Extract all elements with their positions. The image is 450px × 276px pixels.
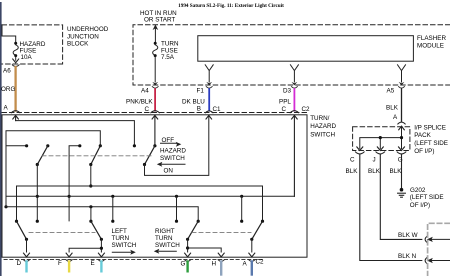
- wire slant3 to B entry: [145, 116, 209, 175]
- wire BLK A5: [401, 89, 403, 121]
- svg-text:TURN: TURN: [112, 235, 130, 242]
- wire PPL D3: [293, 89, 295, 111]
- bus Y: [6, 195, 294, 197]
- HOT IN RUN OR START label: [140, 10, 177, 24]
- svg-text:HAZARD: HAZARD: [160, 148, 186, 155]
- hazard slant 1 top dot: [46, 144, 49, 147]
- svg-text:RIGHT: RIGHT: [155, 228, 175, 235]
- flasher pin Y connector 3: [398, 65, 406, 82]
- pole dot G: [186, 238, 189, 241]
- arrow E exit: [98, 253, 104, 257]
- wire slant1 down to contact row: [36, 165, 38, 222]
- connector cup A: [249, 260, 255, 262]
- right turn switch slant A: [252, 221, 263, 239]
- connector cup F: [66, 260, 72, 262]
- arrow F exit: [66, 253, 72, 257]
- svg-text:JUNCTION: JUNCTION: [67, 34, 99, 41]
- left turn switch label: [112, 228, 137, 249]
- hazard slant 3 bottom dot: [143, 163, 146, 166]
- svg-text:(LEFT SIDE: (LEFT SIDE: [410, 194, 444, 201]
- svg-text:F: F: [58, 260, 62, 267]
- svg-text:TURN/: TURN/: [310, 115, 329, 122]
- arrow D exit: [24, 253, 30, 257]
- bottom connector dashed line C2: [4, 259, 262, 261]
- wire D exit: [26, 239, 28, 252]
- wire from junction block edge to hazard fuse: [2, 25, 16, 42]
- hazard slant 2 bottom dot: [89, 163, 92, 166]
- connector A6 exit cup: [12, 65, 19, 67]
- hazard switch linkage dashed: [42, 155, 151, 157]
- left turn switch slant E: [91, 221, 102, 239]
- labels D3 PPL C C2: [279, 87, 310, 113]
- row A dot 5: [133, 144, 136, 147]
- junction dot bus206 left: [4, 205, 7, 208]
- flasher pin Y connector 2: [290, 65, 298, 82]
- splice junction dot 1: [379, 136, 382, 139]
- entry arrow A (org): [13, 115, 19, 120]
- wire G black down to ground: [401, 155, 403, 188]
- flasher module box U1: [198, 36, 414, 62]
- svg-text:A: A: [393, 114, 398, 121]
- entry arrow A into splice: [399, 126, 405, 130]
- hazard slant 3 top dot: [153, 144, 156, 147]
- hazard slant 1 bottom dot: [36, 163, 39, 166]
- svg-text:BLK: BLK: [386, 105, 399, 112]
- svg-text:OR START: OR START: [144, 17, 175, 24]
- wire stub D lt blu: [25, 262, 27, 272]
- svg-text:SWITCH: SWITCH: [310, 131, 335, 138]
- svg-text:A: A: [4, 105, 9, 112]
- splice exit cup C: [355, 152, 364, 154]
- arrow down at dashed line (F1): [206, 82, 212, 86]
- svg-text:I/P SPLICE: I/P SPLICE: [414, 124, 446, 131]
- svg-text:BLK W: BLK W: [398, 232, 418, 239]
- turn fuse label: [161, 41, 179, 61]
- arrow up to HOT IN RUN: [153, 24, 159, 30]
- svg-text:C: C: [282, 106, 287, 113]
- svg-text:FLASHER: FLASHER: [417, 35, 446, 42]
- wire stub A blue: [251, 262, 253, 275]
- turn/hazard switch label: [310, 115, 336, 138]
- svg-text:PACK: PACK: [414, 132, 431, 139]
- connector cup D: [23, 260, 29, 262]
- svg-text:C2: C2: [302, 106, 311, 113]
- svg-text:F1: F1: [197, 87, 205, 94]
- contact dot 16.5: [15, 220, 18, 223]
- connector cup E: [98, 260, 104, 262]
- wire G exit: [187, 239, 189, 252]
- svg-text:ON: ON: [164, 167, 174, 174]
- splice bus: [360, 127, 402, 149]
- arrow G exit: [185, 253, 191, 257]
- bus from A entry: [16, 121, 135, 145]
- svg-text:G: G: [181, 261, 186, 268]
- contact dot 198.5: [197, 220, 200, 223]
- svg-text:BLK: BLK: [346, 168, 359, 175]
- wire row A contact 3 and F output: [69, 146, 80, 221]
- labels A4 PNK/BLK C: [126, 87, 153, 113]
- splice exit cup J: [376, 152, 385, 154]
- bus 206: [6, 207, 198, 221]
- svg-text:7.5A: 7.5A: [161, 54, 175, 61]
- splice exit cup G: [397, 152, 406, 154]
- labels A5 BLK A: [386, 88, 399, 122]
- inline connector BLK W: [425, 236, 450, 242]
- svg-text:B: B: [197, 106, 201, 113]
- hazard switch slant 3: [145, 146, 155, 165]
- hazard switch label: [160, 148, 186, 163]
- svg-text:10A: 10A: [21, 54, 33, 61]
- wire row A contact 1 to bus206: [6, 146, 27, 207]
- entry arrow C (ppl): [292, 115, 298, 196]
- junction dot busY x37.6: [36, 195, 39, 198]
- svg-text:(LEFT SIDE: (LEFT SIDE: [414, 140, 448, 147]
- bus X right drop: [262, 186, 264, 221]
- row A dot 1: [25, 144, 28, 147]
- wire DK BLU F1: [208, 89, 210, 111]
- arrow down at dashed line (A5): [399, 82, 405, 86]
- svg-text:G202: G202: [410, 187, 426, 194]
- hazard slant 2 top dot: [99, 144, 102, 147]
- left turn switch slant D: [17, 221, 27, 239]
- left turn linkage dashed: [29, 231, 95, 233]
- wire slant2 to busX: [90, 165, 92, 187]
- contact dot 263.3: [261, 220, 264, 223]
- G202 label: [410, 187, 444, 209]
- right turn arrow: [159, 250, 177, 252]
- connector cup G: [184, 260, 190, 262]
- wire J black down and right (BLK W): [380, 155, 422, 239]
- svg-text:BLK: BLK: [390, 168, 403, 175]
- gray dashed rear lamp box corner: [428, 223, 450, 276]
- I/P splice pack dashed box: [353, 127, 410, 151]
- wire stub E lt blu: [100, 262, 102, 272]
- svg-text:SWITCH: SWITCH: [155, 242, 180, 249]
- contact dot 112.8: [111, 220, 114, 223]
- bus X: [17, 186, 263, 221]
- on arrow: [161, 163, 185, 165]
- wire down to turn fuse: [154, 29, 156, 42]
- splice exit arrow J: [377, 147, 383, 151]
- junction dot busY x112.8: [111, 195, 114, 198]
- flasher pin Y connector 1: [205, 65, 213, 82]
- svg-text:PPL: PPL: [279, 98, 291, 105]
- svg-text:PNK/BLK: PNK/BLK: [126, 98, 153, 105]
- contact dot 241.7: [240, 220, 243, 223]
- right turn switch label: [155, 228, 180, 249]
- svg-text:BLK: BLK: [368, 168, 381, 175]
- wire busY to contact 176.5: [176, 196, 178, 221]
- svg-text:D3: D3: [283, 87, 292, 94]
- svg-text:D: D: [17, 260, 22, 267]
- entry arrow B (dk blu): [206, 115, 212, 119]
- wire line3 from left edge to hazard slant2 top: [6, 131, 100, 197]
- connector arc into switch box (C ppl): [290, 111, 299, 113]
- arrow H exit: [218, 253, 224, 257]
- wire bus206 to contact 90.9: [90, 207, 92, 221]
- svg-text:TURN: TURN: [155, 235, 173, 242]
- inline connector BLK N: [425, 258, 450, 264]
- svg-text:J: J: [373, 156, 376, 163]
- turn fuse 7.5A: [153, 42, 158, 82]
- hazard switch slant 2: [91, 146, 101, 165]
- svg-text:A5: A5: [387, 88, 395, 95]
- connector arc into switch box (A): [11, 111, 20, 113]
- contact dot 90.9: [89, 220, 92, 223]
- right turn linkage dashed: [192, 231, 251, 233]
- svg-text:C: C: [350, 156, 355, 163]
- page left border: [0, 2, 2, 276]
- svg-text:DK BLU: DK BLU: [182, 98, 205, 105]
- connector arc into switch box (B): [205, 111, 213, 113]
- splice exit arrow G: [399, 147, 405, 151]
- junction dot busY x176.5: [175, 195, 178, 198]
- connector cup H: [218, 260, 224, 262]
- svg-text:A: A: [243, 261, 248, 268]
- turn/hazard switch box: [2, 115, 307, 257]
- switch box connector dashed line C2: [2, 112, 307, 114]
- wire stub G dk grn: [186, 262, 188, 272]
- wire PNK/BLK A4: [152, 82, 158, 86]
- wire C black down and right (BLK N): [360, 155, 422, 261]
- splice junction dot 2: [400, 136, 403, 139]
- junction dot busY x241.7: [240, 195, 243, 198]
- junction dot busX slant2: [89, 184, 92, 187]
- svg-text:A6: A6: [3, 68, 11, 75]
- arrow A exit: [249, 253, 255, 257]
- arrow down at dashed line (D3): [292, 82, 298, 86]
- connector arc into switch box (C pnk): [151, 111, 160, 113]
- svg-text:OF I/P): OF I/P): [414, 148, 434, 155]
- hazard switch slant 1: [37, 146, 48, 165]
- splice exit arrow C: [357, 147, 363, 151]
- junction dot busY x69.3: [68, 195, 71, 198]
- svg-text:C2: C2: [256, 258, 265, 265]
- I/P splice pack entry arc: [398, 122, 405, 124]
- junction dot bus206 x90.9: [89, 205, 92, 208]
- svg-text:HAZARD: HAZARD: [310, 123, 336, 130]
- contact dot 37.6: [36, 220, 39, 223]
- wire busY to contact 112.8: [112, 196, 114, 221]
- wire A exit: [251, 239, 253, 252]
- off arrow: [161, 142, 177, 144]
- svg-text:OF I/P): OF I/P): [410, 202, 430, 209]
- wire branch to H exit: [188, 248, 222, 252]
- svg-text:E: E: [91, 260, 95, 267]
- wire stub H gray-blue: [220, 262, 222, 275]
- wire E exit: [69, 239, 101, 252]
- svg-text:A4: A4: [141, 87, 149, 94]
- svg-text:LEFT: LEFT: [112, 228, 128, 235]
- ground G202: [398, 188, 406, 197]
- big dashed region (fuse + flasher): [133, 25, 450, 85]
- underhood junction block label: [67, 26, 109, 48]
- svg-text:SWITCH: SWITCH: [112, 242, 137, 249]
- svg-text:C: C: [145, 106, 150, 113]
- pole dot A: [250, 238, 253, 241]
- labels F1 DK BLU B C1: [182, 87, 221, 113]
- pole dot E: [100, 238, 103, 241]
- left turn arrow: [112, 251, 131, 253]
- junction dot G-H branch: [186, 246, 189, 249]
- wire stub F yellow: [68, 262, 70, 272]
- svg-text:MODULE: MODULE: [417, 43, 444, 50]
- svg-text:SWITCH: SWITCH: [160, 155, 185, 162]
- svg-text:BLOCK: BLOCK: [67, 41, 89, 48]
- svg-text:UNDERHOOD: UNDERHOOD: [67, 26, 109, 33]
- entry arrow C (pnk/blk): [152, 115, 158, 144]
- svg-text:H: H: [212, 261, 217, 268]
- hazard fuse F1 10A: [13, 42, 19, 63]
- svg-text:1994 Saturn SL2-Fig. 11: Exter: 1994 Saturn SL2-Fig. 11: Exterior Light …: [178, 3, 284, 9]
- I/P splice pack label: [414, 124, 448, 154]
- right turn switch slant G: [188, 221, 199, 239]
- wire ORG from A6 to turn/hazard switch: [14, 67, 16, 111]
- underhood junction block dashed box: [2, 25, 63, 64]
- svg-text:BLK N: BLK N: [398, 253, 417, 260]
- flasher module label: [417, 35, 446, 50]
- row A dot 3: [78, 144, 81, 147]
- pole dot D: [25, 238, 28, 241]
- svg-text:C1: C1: [213, 106, 222, 113]
- hazard fuse label: [20, 41, 46, 61]
- contact dot 176.5: [175, 220, 178, 223]
- svg-text:ORG: ORG: [1, 86, 15, 93]
- wire busY to contact 241.7: [241, 196, 243, 221]
